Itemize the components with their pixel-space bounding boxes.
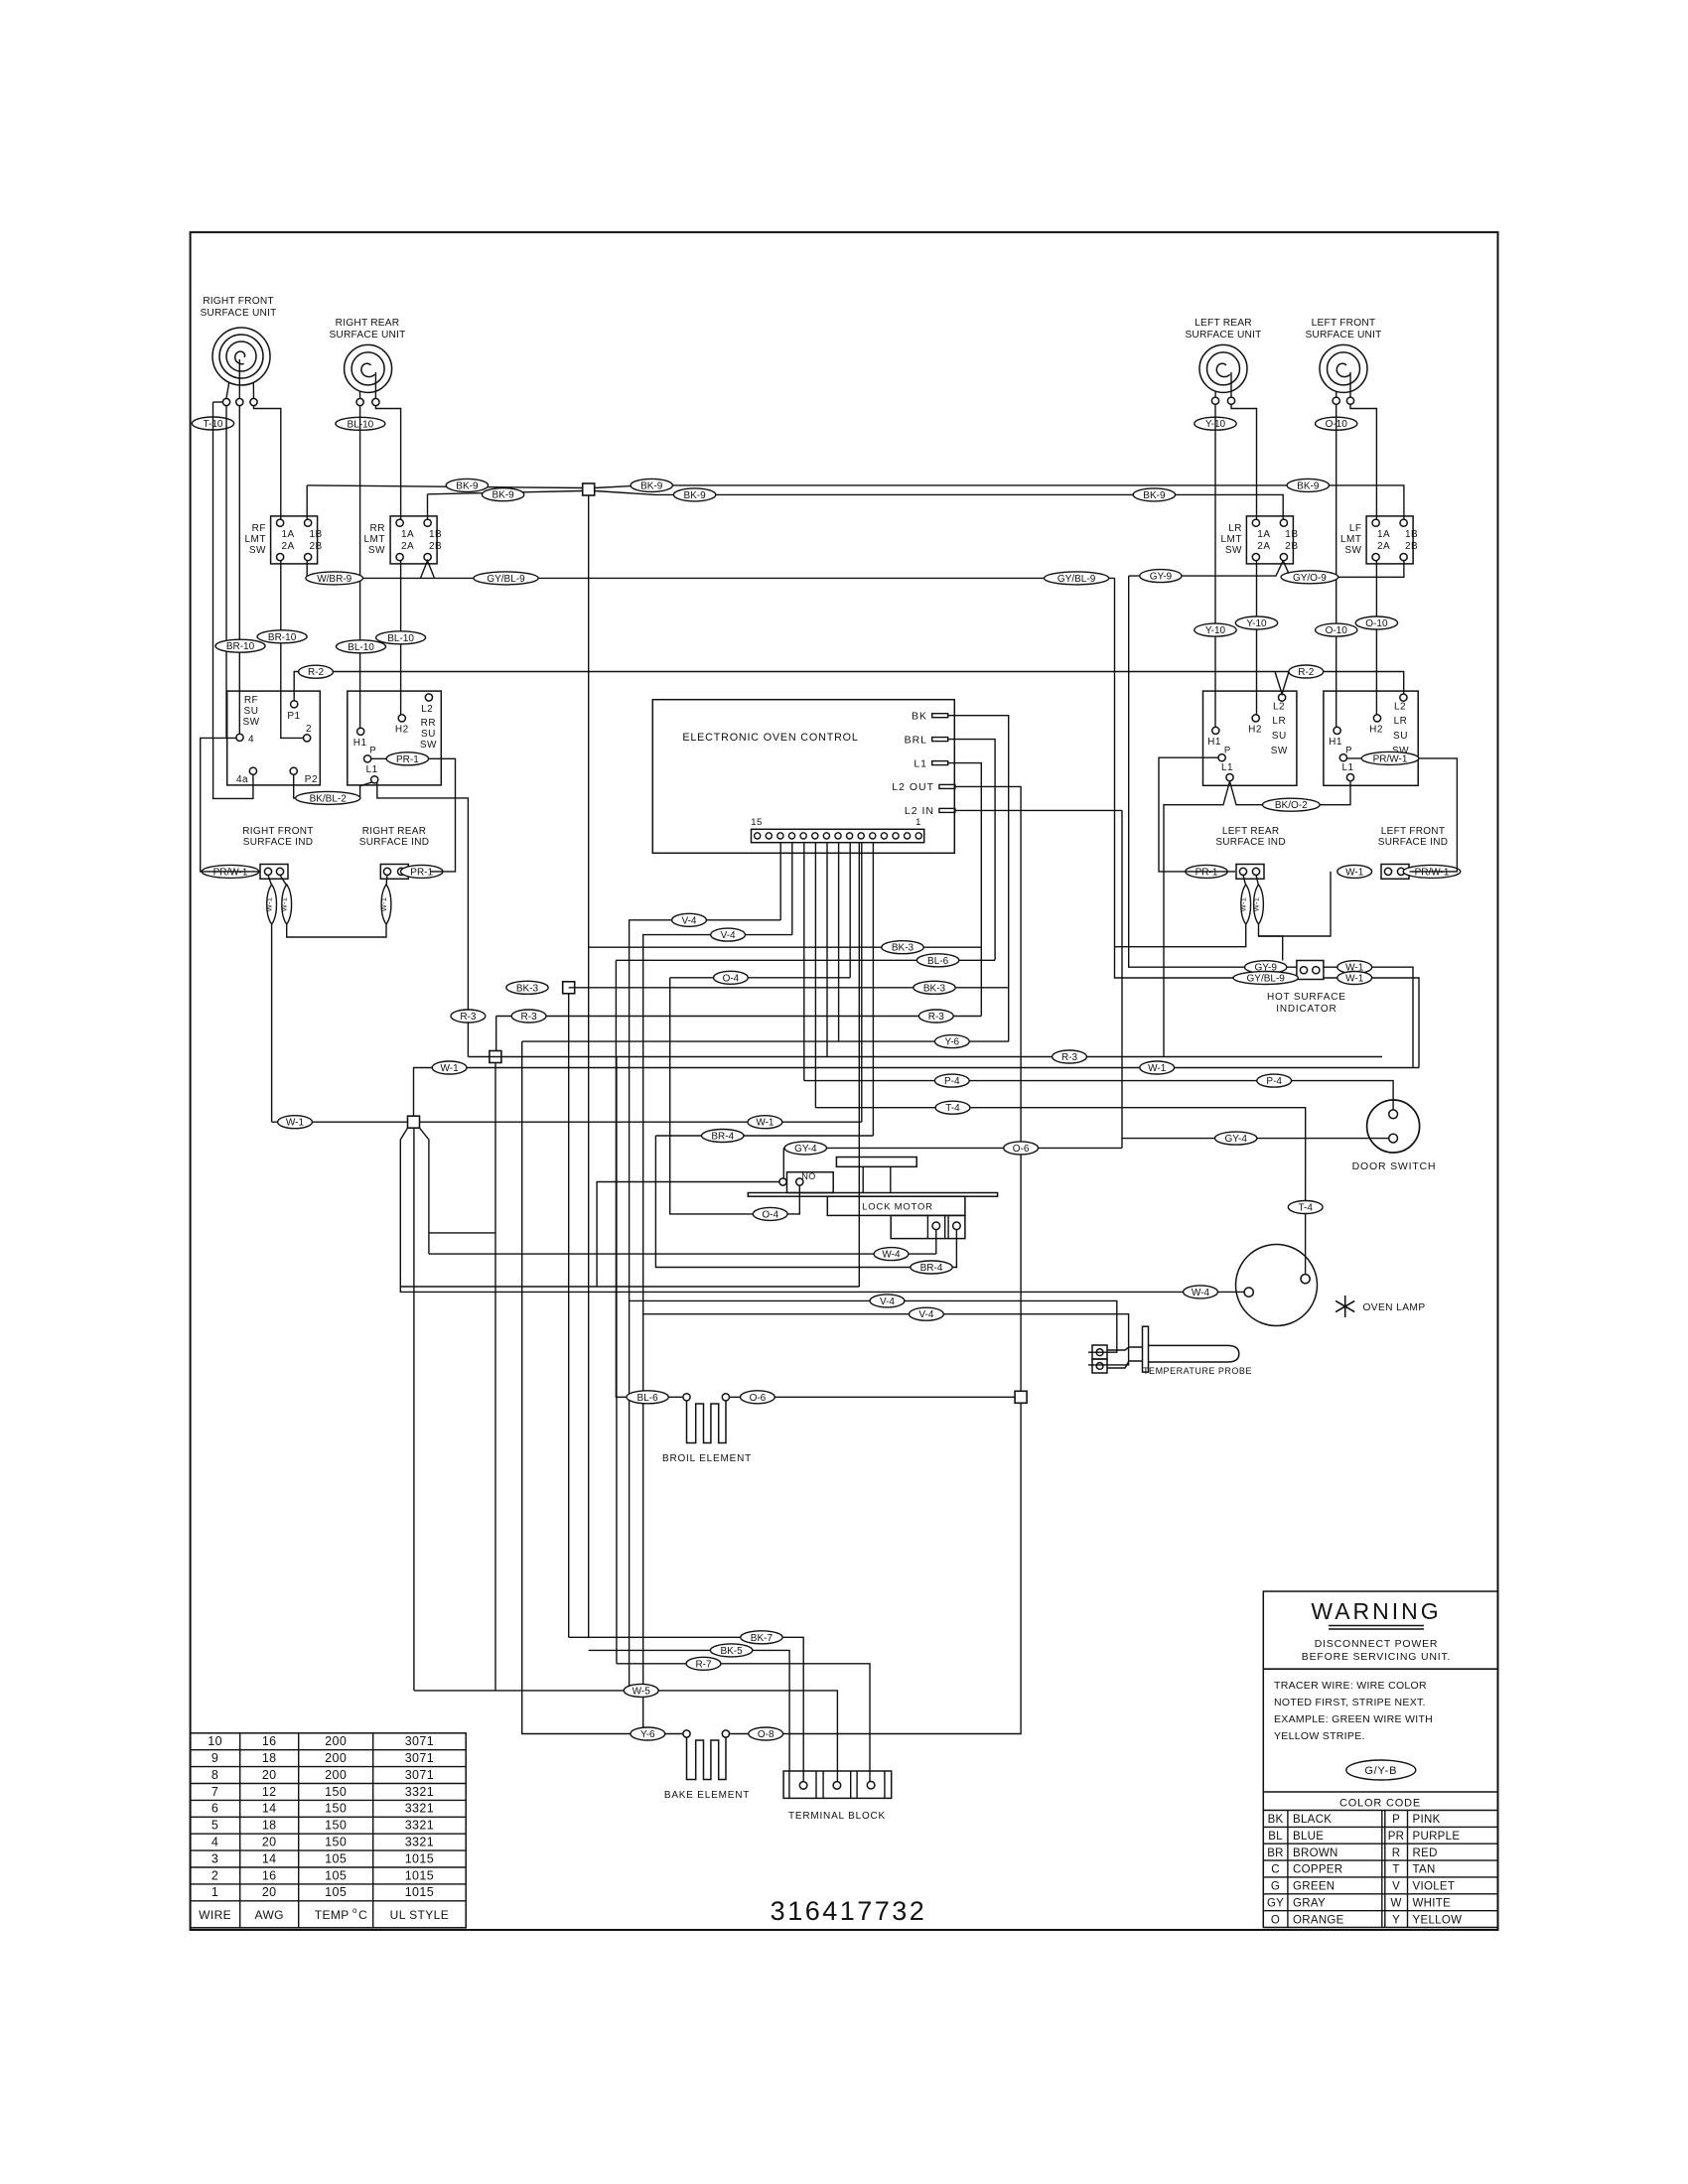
oven lamp	[1236, 1245, 1318, 1326]
left rear surface unit leads	[1214, 391, 1216, 397]
wire label BK-7	[741, 1631, 782, 1644]
wire label BR-10	[257, 630, 307, 643]
svg-text:BK-9: BK-9	[1297, 480, 1320, 491]
svg-text:4: 4	[248, 735, 254, 746]
svg-text:R-7: R-7	[695, 1659, 712, 1670]
wire label G/Y-B	[1346, 1760, 1416, 1780]
wire label O-10	[1316, 623, 1357, 636]
svg-text:W-5: W-5	[633, 1686, 651, 1697]
svg-text:1A: 1A	[1377, 529, 1390, 540]
wire W-1 long upper run	[414, 1068, 1420, 1117]
wire label BR-10	[215, 639, 265, 652]
wire label W-1	[1337, 961, 1372, 974]
svg-text:BK/O-2: BK/O-2	[1275, 800, 1308, 811]
wire GY-9 drop to hot surface indicator	[1129, 576, 1297, 967]
svg-text:2B: 2B	[309, 541, 322, 552]
wire LR bulb left common	[1115, 924, 1246, 947]
svg-text:LR: LR	[1272, 716, 1286, 727]
switch LR SU SW terminal H2	[1252, 715, 1259, 722]
svg-text:BR: BR	[1267, 1847, 1283, 1859]
wire label W-5	[624, 1684, 658, 1697]
svg-text:9: 9	[211, 1751, 218, 1765]
svg-text:BL-6: BL-6	[927, 956, 949, 967]
svg-text:8: 8	[211, 1768, 218, 1782]
svg-text:105: 105	[325, 1868, 347, 1882]
svg-text:Y-10: Y-10	[1246, 618, 1267, 629]
wire label W-4	[874, 1248, 909, 1261]
svg-text:GY-9: GY-9	[1150, 572, 1173, 583]
svg-text:7: 7	[211, 1785, 218, 1799]
svg-text:2B: 2B	[429, 541, 442, 552]
wire RF terminal 2 to terminal 4	[238, 406, 240, 734]
wire label V-4	[672, 913, 707, 926]
wire label W-1	[1337, 865, 1372, 878]
svg-text:TRACER WIRE: WIRE COLOR: TRACER WIRE: WIRE COLOR	[1274, 1680, 1427, 1692]
svg-text:Y-6: Y-6	[944, 1037, 959, 1048]
svg-text:UL STYLE: UL STYLE	[390, 1908, 449, 1922]
wire label BL-6	[627, 1391, 668, 1404]
wire label R-2	[299, 665, 334, 678]
wire label PR-1	[386, 752, 428, 765]
svg-text:4a: 4a	[236, 774, 248, 785]
svg-text:G: G	[1271, 1881, 1280, 1893]
wire junction J1 down to BK-3	[588, 495, 590, 1637]
svg-text:o: o	[352, 1906, 357, 1915]
svg-text:1: 1	[211, 1885, 218, 1899]
wire RF LMT 2A down to RF SU SW terminal 2	[281, 561, 304, 739]
wire RF SU SW 4a jog	[213, 738, 253, 798]
svg-text:GY-4: GY-4	[1224, 1134, 1247, 1145]
wire BK-3 upper from EOC L1 to junction J1 leg	[948, 763, 982, 1017]
switch LR SU SW terminal L2	[1279, 694, 1286, 701]
lock motor body	[827, 1196, 965, 1215]
svg-text:Y: Y	[1392, 1914, 1400, 1926]
wire label BK-9	[673, 488, 715, 501]
svg-text:INDICATOR: INDICATOR	[1276, 1004, 1336, 1015]
right rear surface unit leads	[358, 391, 360, 398]
svg-text:H1: H1	[1207, 737, 1221, 748]
svg-text:BLACK: BLACK	[1293, 1814, 1332, 1826]
wire RR terminal 2 to RR LMT 1A	[375, 406, 400, 519]
wire LR P to PR-1 and LR indicator	[1159, 757, 1235, 872]
svg-text:H2: H2	[1248, 725, 1262, 736]
svg-text:LEFT FRONT: LEFT FRONT	[1312, 318, 1376, 329]
wire GY-4 from NO contact to door switch	[782, 1148, 784, 1177]
indicator bulb W-1 right rear	[386, 876, 387, 887]
wire label PR/W-1	[1403, 865, 1461, 878]
wire W-4 to lock motor	[429, 1253, 936, 1255]
svg-text:2A: 2A	[1257, 541, 1270, 552]
border frame	[191, 232, 1498, 1930]
svg-text:1015: 1015	[405, 1851, 434, 1865]
right front unit terminals	[222, 398, 229, 405]
svg-text:ORANGE: ORANGE	[1293, 1914, 1344, 1926]
limit switch RF LMT SW	[271, 516, 318, 564]
wire LR terminal 2 to LR LMT 1A	[1231, 404, 1257, 519]
svg-text:O-10: O-10	[1326, 625, 1348, 636]
wire R-7 run to terminal block	[616, 1057, 618, 1664]
wire Y-6 run to bake element	[522, 1040, 1009, 1042]
wire EOC spare pin a	[826, 843, 828, 1057]
wire T-4 EOC pin to oven lamp	[814, 843, 816, 1108]
svg-text:BR-10: BR-10	[268, 632, 297, 643]
wire R-3 long lower run	[468, 1056, 1382, 1058]
svg-text:1015: 1015	[405, 1885, 434, 1899]
switch RR SU SW terminal L2	[425, 694, 432, 701]
svg-text:O-4: O-4	[723, 973, 740, 984]
svg-text:3321: 3321	[405, 1836, 434, 1849]
svg-text:BL: BL	[1268, 1831, 1283, 1843]
wire label R-7	[686, 1657, 721, 1670]
svg-text:1B: 1B	[1285, 529, 1298, 540]
switch LF SU SW terminal H2	[1373, 715, 1380, 722]
wire GY-9 run	[1129, 561, 1284, 576]
wire hot surface indicator W-1 pair right	[1324, 967, 1413, 1067]
wire label BL-10	[337, 640, 386, 653]
svg-text:SW: SW	[242, 717, 259, 728]
svg-text:10: 10	[208, 1734, 222, 1748]
svg-text:RR: RR	[421, 718, 436, 729]
indicator bulb W-1 right front a	[268, 876, 272, 887]
svg-text:W-1: W-1	[280, 897, 289, 912]
svg-text:OVEN LAMP: OVEN LAMP	[1362, 1302, 1425, 1313]
wire label W-4	[1184, 1286, 1218, 1298]
svg-text:2A: 2A	[281, 541, 294, 552]
svg-text:P2: P2	[305, 774, 318, 785]
svg-text:GY/BL-9: GY/BL-9	[487, 574, 525, 585]
svg-text:GY: GY	[1267, 1897, 1284, 1909]
svg-text:ELECTRONIC OVEN CONTROL: ELECTRONIC OVEN CONTROL	[682, 732, 858, 744]
wire label Y-10	[1235, 616, 1277, 629]
wire bridge J3 to W-4 leg	[429, 1232, 495, 1234]
svg-text:2B: 2B	[1405, 541, 1418, 552]
svg-text:W-1: W-1	[1345, 867, 1364, 878]
svg-text:W-1: W-1	[1252, 897, 1261, 912]
wire label T-10	[192, 417, 233, 430]
wire label GY-9	[1245, 961, 1287, 974]
wire label P-4	[1257, 1074, 1292, 1087]
svg-text:W: W	[1390, 1897, 1401, 1909]
svg-text:LMT: LMT	[364, 534, 386, 545]
svg-text:WARNING: WARNING	[1311, 1598, 1441, 1624]
switch LR SU SW box	[1203, 691, 1297, 785]
switch RF SU SW terminal P1	[291, 701, 298, 708]
wire label W-1	[432, 1061, 467, 1074]
switch RR SU SW terminal L1	[371, 776, 378, 783]
terminal block	[783, 1771, 892, 1798]
svg-text:R-3: R-3	[928, 1012, 945, 1023]
svg-text:V-4: V-4	[918, 1309, 933, 1320]
wire label W-1	[1140, 1061, 1175, 1074]
lock motor cam	[836, 1158, 916, 1167]
svg-text:W-1: W-1	[379, 897, 388, 912]
switch LR SU SW terminal H1	[1212, 727, 1219, 734]
switch RF SU SW terminal 2	[304, 735, 311, 742]
svg-text:150: 150	[325, 1802, 347, 1816]
svg-text:200: 200	[325, 1751, 347, 1765]
svg-text:SURFACE UNIT: SURFACE UNIT	[329, 330, 405, 341]
svg-text:BK-7: BK-7	[751, 1633, 774, 1644]
svg-text:GY/BL-9: GY/BL-9	[1247, 974, 1286, 985]
indicator bulb W-1 left rear a	[1243, 876, 1246, 887]
svg-text:Y-6: Y-6	[640, 1729, 655, 1740]
svg-text:BK-3: BK-3	[892, 943, 914, 954]
svg-text:L1: L1	[1341, 762, 1353, 773]
wire BK pin down	[948, 716, 1009, 1041]
svg-text:R-2: R-2	[308, 667, 325, 678]
svg-text:BR-10: BR-10	[226, 641, 255, 652]
wire label BK-9	[1133, 488, 1175, 501]
svg-text:NO: NO	[801, 1171, 815, 1181]
svg-text:RIGHT FRONT: RIGHT FRONT	[242, 826, 313, 837]
svg-text:3071: 3071	[405, 1734, 434, 1748]
right front surface indicator	[260, 865, 288, 880]
switch RR SU SW box	[348, 691, 442, 785]
wire W-5 run to terminal block	[414, 1691, 838, 1782]
svg-text:O-4: O-4	[762, 1209, 778, 1220]
svg-text:HOT SURFACE: HOT SURFACE	[1267, 992, 1346, 1003]
svg-text:SURFACE UNIT: SURFACE UNIT	[200, 308, 276, 319]
svg-text:SU: SU	[1272, 731, 1287, 742]
svg-text:DOOR SWITCH: DOOR SWITCH	[1352, 1160, 1437, 1172]
svg-text:BLUE: BLUE	[1293, 1831, 1324, 1843]
wire label BK-5	[710, 1644, 752, 1657]
svg-text:L2: L2	[1273, 702, 1285, 713]
svg-text:V-4: V-4	[880, 1297, 895, 1307]
switch LR SU SW terminal L1	[1226, 774, 1233, 781]
svg-text:BK-9: BK-9	[456, 480, 479, 491]
svg-text:SW: SW	[1271, 746, 1288, 756]
wire O-6 broil link	[730, 1396, 1015, 1398]
switch LF SU SW terminal L1	[1346, 774, 1353, 781]
temperature probe body	[1107, 1347, 1143, 1350]
wire label GY-4	[1215, 1132, 1257, 1145]
wire W-1 horizontal into J4	[272, 1121, 408, 1123]
svg-text:2: 2	[306, 724, 312, 735]
svg-text:TERMINAL BLOCK: TERMINAL BLOCK	[788, 1811, 886, 1822]
svg-text:GY/O-9: GY/O-9	[1293, 573, 1327, 584]
wire NO switch feed	[400, 1286, 859, 1288]
wire BK-3 lower run	[569, 987, 1009, 989]
svg-text:PR: PR	[1388, 1831, 1404, 1843]
svg-text:GY-4: GY-4	[794, 1144, 817, 1155]
svg-text:18: 18	[262, 1751, 277, 1765]
oven lamp asterisk and label	[0, 0, 1, 1]
wire label BL-10	[376, 631, 426, 644]
svg-text:3321: 3321	[405, 1802, 434, 1816]
wire label O-6	[741, 1391, 775, 1404]
switch RR SU SW terminal H2	[398, 715, 405, 722]
wire bundle vertical continuation a	[494, 1233, 496, 1691]
svg-text:Y-10: Y-10	[1205, 625, 1226, 636]
switch LF SU SW terminal P	[1339, 754, 1346, 761]
svg-text:BEFORE SERVICING UNIT.: BEFORE SERVICING UNIT.	[1302, 1651, 1451, 1663]
svg-text:PR/W-1: PR/W-1	[1373, 753, 1408, 764]
switch LF SU SW box	[1324, 691, 1418, 785]
svg-text:R-2: R-2	[1298, 667, 1315, 678]
svg-text:14: 14	[262, 1802, 277, 1816]
svg-text:150: 150	[325, 1819, 347, 1833]
svg-text:LMT: LMT	[1340, 534, 1362, 545]
svg-text:PURPLE: PURPLE	[1413, 1831, 1461, 1843]
wire label O-10	[1316, 417, 1357, 430]
svg-text:3321: 3321	[405, 1785, 434, 1799]
wire BK-5 run to terminal block	[589, 1650, 789, 1771]
wire RR L1 right branch	[377, 783, 469, 1057]
wire BK-9 right upper run to LF LMT 1B	[595, 485, 1404, 519]
wire label BL-10	[336, 417, 385, 430]
wire BR-4 from lock motor	[655, 1136, 956, 1268]
svg-text:150: 150	[325, 1785, 347, 1799]
wire R-3 middle run	[496, 1016, 982, 1018]
svg-text:O-8: O-8	[758, 1729, 774, 1740]
left front surface unit leads	[1336, 391, 1337, 397]
wire RF terminal 1 down	[225, 406, 227, 739]
wire label PR/W-1	[202, 865, 259, 878]
svg-text:R: R	[1392, 1847, 1401, 1859]
svg-text:PR-1: PR-1	[410, 867, 433, 878]
wire label R-3	[1053, 1050, 1087, 1063]
svg-text:L2: L2	[1394, 702, 1406, 713]
svg-text:316417732: 316417732	[771, 1896, 927, 1926]
svg-text:P: P	[1345, 746, 1351, 756]
junction J1 BK-9	[583, 483, 595, 495]
EOC 15-pin connector strip	[752, 829, 924, 842]
svg-text:W-1: W-1	[1345, 974, 1364, 985]
svg-text:GRAY: GRAY	[1293, 1897, 1326, 1909]
svg-text:BL-10: BL-10	[348, 642, 374, 653]
wire label BK-3	[506, 981, 548, 994]
wire label PR/W-1	[1361, 751, 1419, 764]
wire label W-1	[748, 1116, 782, 1129]
wire label BR-4	[702, 1130, 744, 1143]
svg-text:RED: RED	[1413, 1847, 1438, 1859]
wire bundle vertical continuation b	[629, 1300, 631, 1691]
limit switch RR LMT SW	[390, 516, 437, 564]
svg-text:SU: SU	[421, 729, 436, 740]
svg-text:P1: P1	[287, 711, 300, 722]
svg-text:SURFACE UNIT: SURFACE UNIT	[1305, 330, 1381, 341]
wire LR LMT 2A down to LR H2	[1256, 561, 1258, 715]
lock motor NO contact	[787, 1172, 834, 1193]
wire label Y-10	[1195, 417, 1236, 430]
left front surface indicator	[1381, 865, 1409, 880]
wire label BK-3	[882, 941, 923, 954]
svg-text:P-4: P-4	[944, 1076, 960, 1087]
wire label R-3	[451, 1010, 486, 1023]
svg-text:L2 IN: L2 IN	[905, 805, 934, 817]
wire O-4 to EOC pin	[670, 977, 851, 979]
wire label V-4	[910, 1307, 944, 1320]
wire O-4 from NO contact	[670, 978, 800, 1214]
wire terminal4 jog and PR/W-1 to RF indicator	[201, 738, 260, 872]
svg-text:LOCK MOTOR: LOCK MOTOR	[862, 1202, 933, 1213]
svg-text:SURFACE IND: SURFACE IND	[1215, 837, 1286, 848]
svg-text:1A: 1A	[401, 529, 414, 540]
svg-text:SURFACE IND: SURFACE IND	[1378, 837, 1449, 848]
svg-text:TAN: TAN	[1413, 1864, 1436, 1876]
svg-text:BAKE ELEMENT: BAKE ELEMENT	[664, 1790, 750, 1801]
svg-text:LMT: LMT	[245, 534, 267, 545]
svg-text:1B: 1B	[1405, 529, 1418, 540]
wire label T-4	[1288, 1201, 1323, 1214]
wire label O-4	[753, 1207, 787, 1220]
svg-text:H2: H2	[1369, 725, 1383, 736]
svg-text:T: T	[1392, 1864, 1399, 1876]
wire L2 OUT to O-6 broil	[955, 786, 1021, 1391]
svg-text:YELLOW STRIPE.: YELLOW STRIPE.	[1274, 1730, 1365, 1742]
wire RR P to PR-1 and RR indicator	[371, 758, 456, 872]
svg-text:RIGHT REAR: RIGHT REAR	[336, 318, 400, 329]
svg-text:V-4: V-4	[721, 930, 736, 941]
svg-text:SW: SW	[368, 545, 385, 556]
svg-text:1: 1	[915, 817, 921, 828]
svg-text:L2 OUT: L2 OUT	[892, 781, 934, 793]
svg-text:L1: L1	[1221, 762, 1233, 773]
switch RF SU SW terminal P2	[290, 767, 297, 774]
wire label GY/BL-9	[1045, 572, 1109, 585]
svg-text:NOTED FIRST, STRIPE NEXT.: NOTED FIRST, STRIPE NEXT.	[1274, 1697, 1426, 1708]
svg-text:1015: 1015	[405, 1868, 434, 1882]
svg-text:P: P	[1392, 1814, 1400, 1826]
svg-text:O-6: O-6	[1013, 1144, 1030, 1155]
svg-text:SURFACE UNIT: SURFACE UNIT	[1185, 330, 1261, 341]
wire RF LMT 1B up to BK-9	[306, 485, 308, 519]
right rear surface unit coil	[345, 344, 392, 392]
wire label GY/BL-9	[1233, 972, 1298, 985]
svg-text:R-3: R-3	[460, 1012, 477, 1023]
wire label W/BR-9	[306, 572, 363, 585]
wire BK-9 left pair into junction	[307, 485, 583, 488]
wire T-10 from RF terminal 1	[213, 401, 223, 403]
svg-text:GREEN: GREEN	[1293, 1881, 1335, 1893]
wire W/BR-9 GY/BL-9 long run	[307, 577, 1114, 579]
wire GY/BL-9 drop to hot surface indicator	[1115, 578, 1297, 978]
wire R-2 long run	[294, 672, 1404, 701]
svg-text:5: 5	[211, 1819, 218, 1833]
right front surface unit leads	[226, 382, 229, 398]
svg-text:SW: SW	[249, 545, 266, 556]
wire label Y-10	[1195, 623, 1236, 636]
wire label BR-4	[911, 1261, 952, 1274]
wire BK/BL-2 from P2 to RR L1	[294, 775, 372, 798]
svg-text:W-1: W-1	[286, 1118, 305, 1129]
temperature probe connector	[1092, 1345, 1107, 1359]
svg-text:16: 16	[262, 1868, 277, 1882]
svg-text:2B: 2B	[1285, 541, 1298, 552]
svg-text:BR-4: BR-4	[711, 1132, 734, 1143]
wire J4 legs down	[400, 1128, 1244, 1292]
svg-text:C: C	[358, 1908, 367, 1922]
svg-text:LR: LR	[1228, 523, 1242, 534]
switch RF SU SW box	[227, 691, 321, 785]
svg-text:GY/BL-9: GY/BL-9	[1057, 574, 1096, 585]
svg-text:BK-3: BK-3	[923, 983, 946, 994]
wire label R-3	[918, 1010, 953, 1023]
svg-text:200: 200	[325, 1768, 347, 1782]
wire label BK-9	[446, 478, 488, 491]
wire label BK-9	[631, 478, 672, 491]
svg-text:SU: SU	[244, 706, 259, 717]
svg-text:16: 16	[262, 1734, 277, 1748]
svg-text:PR/W-1: PR/W-1	[1415, 867, 1450, 878]
svg-text:COPPER: COPPER	[1293, 1864, 1342, 1876]
svg-text:RIGHT REAR: RIGHT REAR	[362, 826, 427, 837]
wire label O-4	[714, 971, 749, 984]
limit switch LF LMT SW	[1366, 516, 1413, 564]
svg-text:O-6: O-6	[750, 1393, 767, 1404]
svg-text:O: O	[1271, 1914, 1280, 1926]
